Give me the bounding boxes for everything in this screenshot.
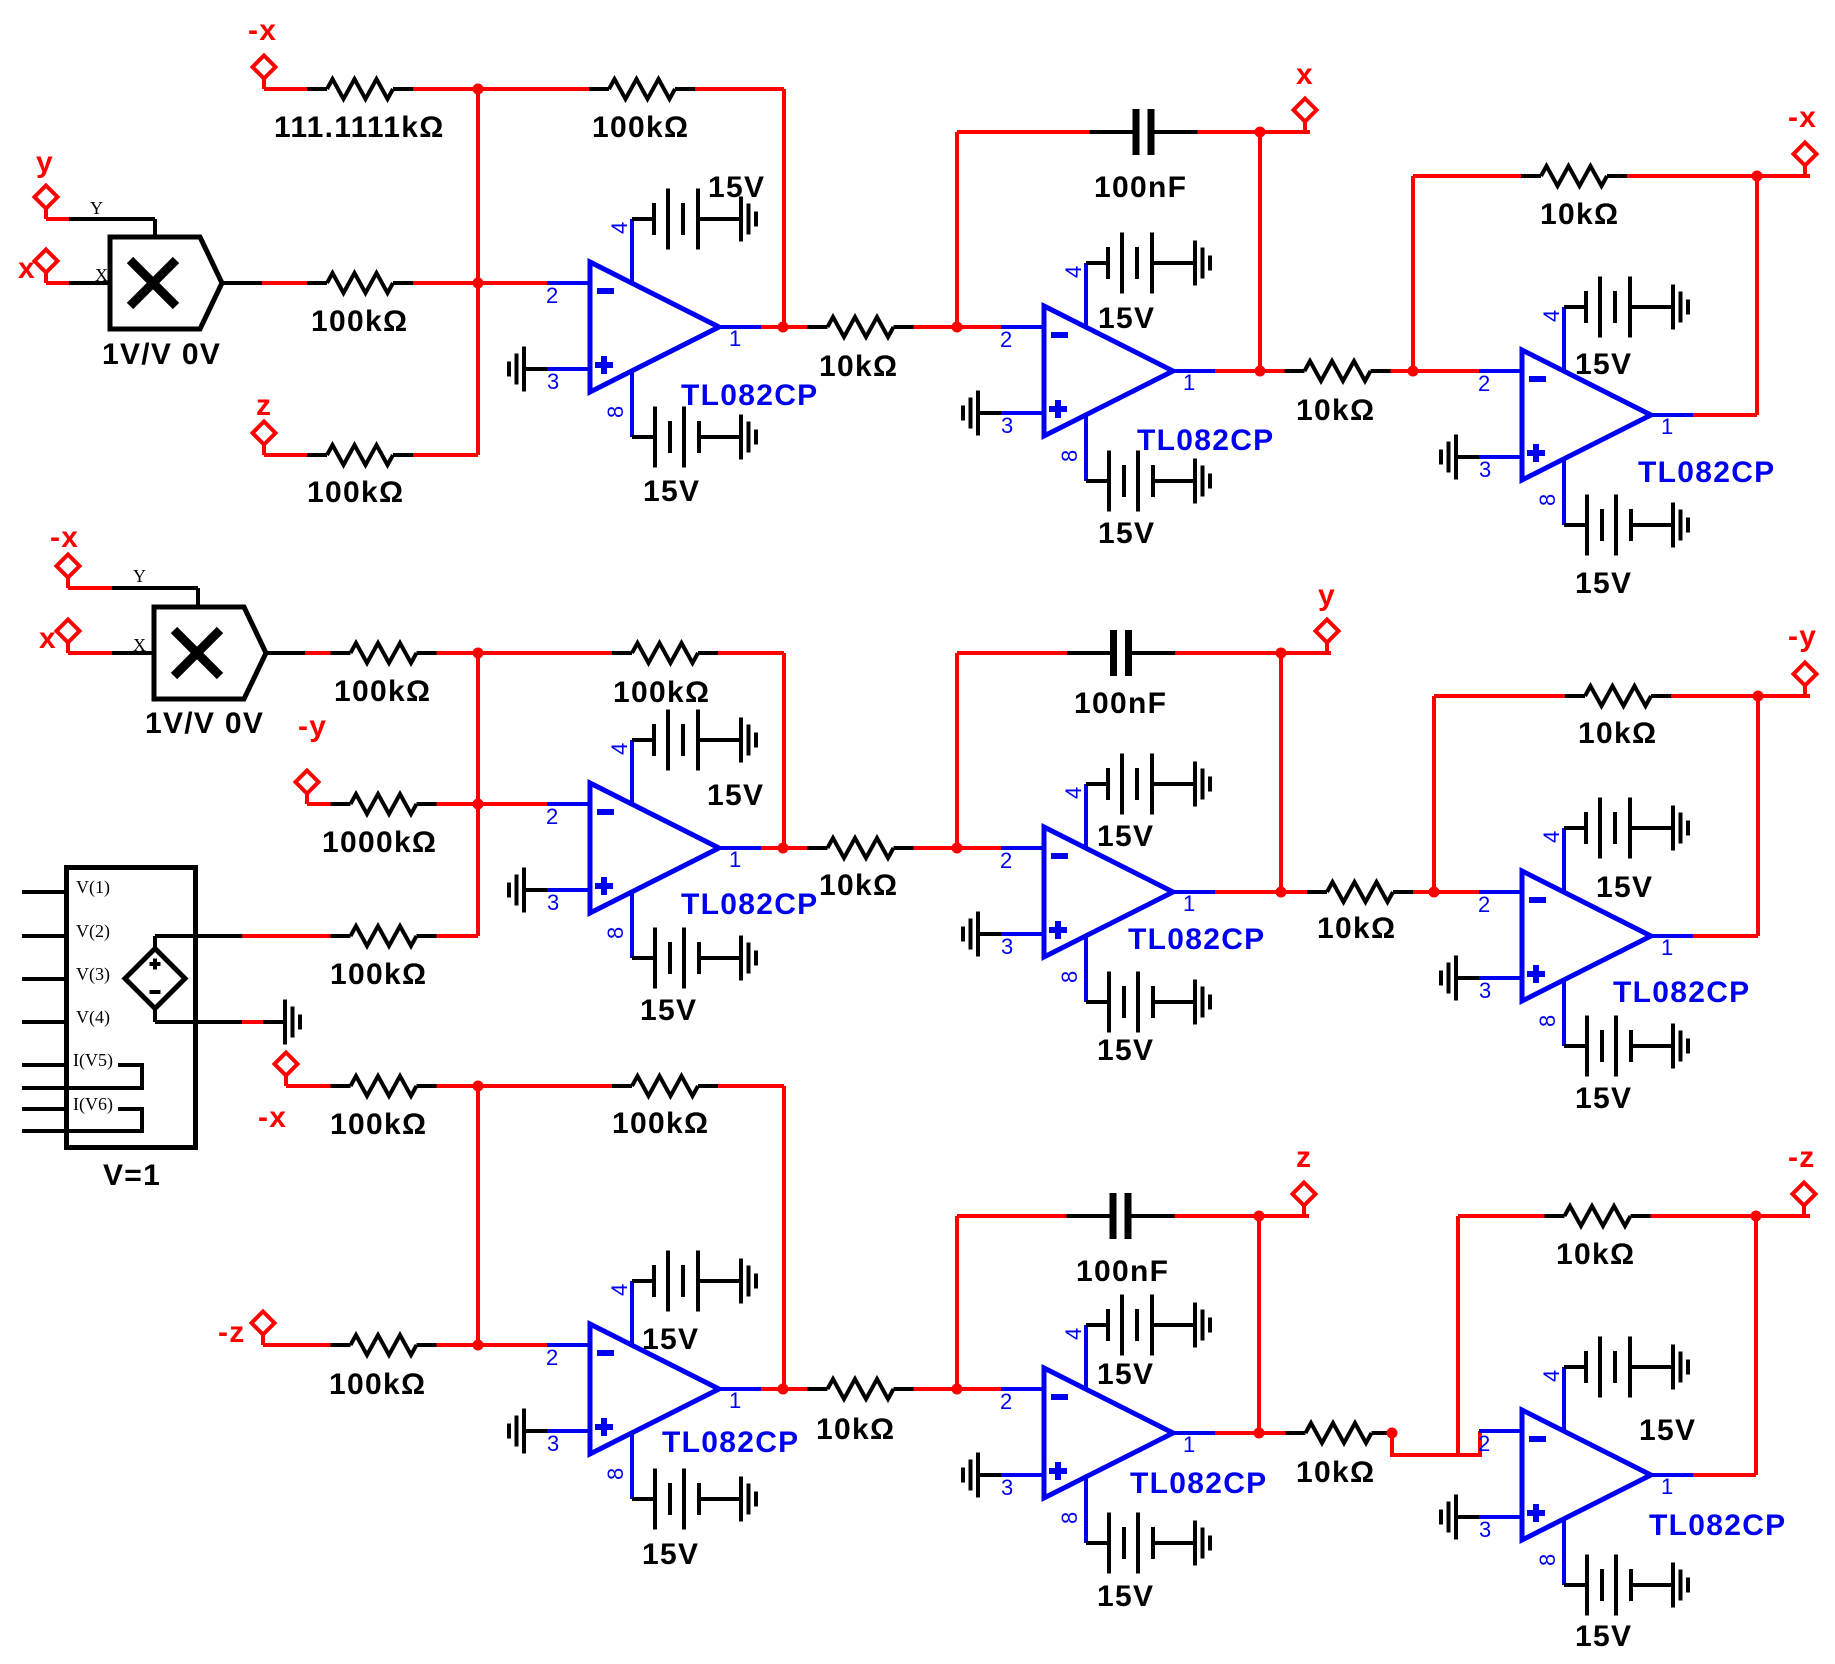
svg-text:100kΩ: 100kΩ (592, 111, 689, 144)
svg-text:100nF: 100nF (1094, 171, 1187, 204)
svg-text:-z: -z (218, 1316, 246, 1349)
svg-text:10kΩ: 10kΩ (1540, 198, 1619, 231)
svg-text:Y: Y (133, 566, 146, 586)
svg-text:100kΩ: 100kΩ (613, 676, 710, 709)
svg-text:15V: 15V (640, 994, 697, 1027)
svg-text:100kΩ: 100kΩ (307, 476, 404, 509)
svg-text:15V: 15V (642, 1538, 699, 1571)
svg-text:TL082CP: TL082CP (681, 888, 818, 921)
svg-text:TL082CP: TL082CP (662, 1426, 799, 1459)
svg-text:10kΩ: 10kΩ (1317, 912, 1396, 945)
svg-text:-x: -x (1788, 101, 1817, 134)
svg-text:15V: 15V (1097, 1358, 1154, 1391)
svg-text:10kΩ: 10kΩ (1556, 1238, 1635, 1271)
svg-text:TL082CP: TL082CP (1130, 1467, 1267, 1500)
svg-text:10kΩ: 10kΩ (1296, 394, 1375, 427)
svg-text:Y: Y (90, 198, 103, 218)
svg-text:100kΩ: 100kΩ (330, 1108, 427, 1141)
svg-text:15V: 15V (643, 475, 700, 508)
svg-text:-y: -y (298, 710, 327, 743)
svg-text:100kΩ: 100kΩ (311, 305, 408, 338)
svg-text:V(1): V(1) (76, 877, 110, 898)
svg-text:15V: 15V (1097, 1034, 1154, 1067)
svg-text:15V: 15V (1575, 348, 1632, 381)
svg-text:z: z (1296, 1141, 1312, 1174)
svg-text:y: y (1318, 579, 1336, 612)
svg-text:15V: 15V (1098, 517, 1155, 550)
svg-text:10kΩ: 10kΩ (1296, 1456, 1375, 1489)
svg-text:x: x (1296, 58, 1314, 91)
svg-text:15V: 15V (1575, 567, 1632, 600)
svg-text:100kΩ: 100kΩ (612, 1107, 709, 1140)
svg-text:15V: 15V (1575, 1082, 1632, 1115)
svg-text:15V: 15V (1097, 820, 1154, 853)
svg-text:1000kΩ: 1000kΩ (322, 826, 437, 859)
svg-text:V(3): V(3) (76, 964, 110, 985)
svg-text:V=1: V=1 (103, 1159, 161, 1192)
svg-text:15V: 15V (642, 1323, 699, 1356)
svg-text:-y: -y (1788, 620, 1817, 653)
svg-text:TL082CP: TL082CP (1128, 923, 1265, 956)
svg-text:10kΩ: 10kΩ (816, 1413, 895, 1446)
svg-text:X: X (133, 635, 146, 655)
svg-text:111.1111kΩ: 111.1111kΩ (274, 111, 445, 144)
svg-text:-z: -z (1788, 1141, 1816, 1174)
svg-text:V(4): V(4) (76, 1007, 110, 1028)
svg-text:-x: -x (258, 1101, 287, 1134)
svg-text:15V: 15V (708, 171, 765, 204)
svg-text:V(2): V(2) (76, 921, 110, 942)
svg-text:15V: 15V (1097, 1580, 1154, 1613)
svg-text:100kΩ: 100kΩ (329, 1368, 426, 1401)
svg-text:100kΩ: 100kΩ (334, 675, 431, 708)
svg-text:10kΩ: 10kΩ (1578, 717, 1657, 750)
svg-text:15V: 15V (1098, 302, 1155, 335)
svg-text:TL082CP: TL082CP (1137, 424, 1274, 457)
svg-text:TL082CP: TL082CP (1649, 1509, 1786, 1542)
svg-text:x: x (18, 252, 36, 285)
svg-text:1V/V 0V: 1V/V 0V (145, 707, 264, 740)
svg-text:I(V6): I(V6) (73, 1094, 113, 1115)
svg-text:10kΩ: 10kΩ (819, 350, 898, 383)
svg-text:15V: 15V (707, 779, 764, 812)
svg-text:TL082CP: TL082CP (681, 379, 818, 412)
svg-text:-x: -x (50, 521, 79, 554)
svg-text:-x: -x (248, 14, 277, 47)
svg-text:I(V5): I(V5) (73, 1050, 113, 1071)
svg-text:TL082CP: TL082CP (1613, 976, 1750, 1009)
svg-text:15V: 15V (1639, 1414, 1696, 1447)
svg-text:15V: 15V (1596, 871, 1653, 904)
svg-text:100kΩ: 100kΩ (330, 958, 427, 991)
svg-text:10kΩ: 10kΩ (819, 869, 898, 902)
svg-text:1V/V 0V: 1V/V 0V (102, 338, 221, 371)
svg-text:100nF: 100nF (1076, 1255, 1169, 1288)
svg-text:z: z (256, 389, 272, 422)
svg-text:x: x (39, 622, 57, 655)
svg-text:100nF: 100nF (1074, 687, 1167, 720)
svg-text:y: y (36, 146, 54, 179)
svg-text:X: X (95, 265, 108, 285)
svg-text:15V: 15V (1575, 1620, 1632, 1653)
svg-text:TL082CP: TL082CP (1638, 456, 1775, 489)
